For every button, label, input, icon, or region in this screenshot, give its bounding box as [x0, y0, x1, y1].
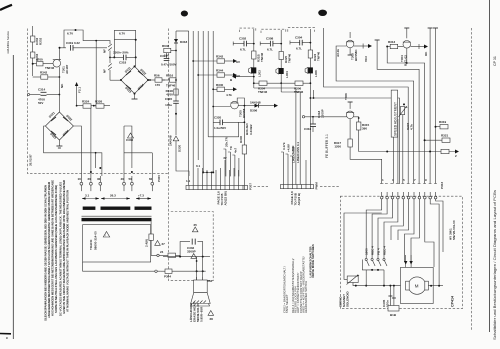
potentiometer R307 — [399, 103, 414, 130]
transistor T306 FE buffer — [344, 93, 354, 119]
svg-text:C318: C318 — [119, 61, 127, 65]
svg-text:D306: D306 — [250, 109, 258, 113]
wire bridge D311 left — [110, 79, 121, 81]
wire osc bottom rail — [163, 256, 210, 258]
svg-text:1N4148: 1N4148 — [250, 101, 261, 105]
svg-text:C316: C316 — [304, 127, 312, 131]
svg-text:T306: T306 — [344, 93, 348, 100]
resistor R302 — [31, 36, 43, 45]
wire T304 collector — [406, 48, 408, 64]
svg-text:TNF46: TNF46 — [260, 53, 264, 63]
warning triangle osc mid — [191, 254, 197, 259]
wire bridge D311 right chain — [148, 74, 165, 88]
svg-text:L303: L303 — [258, 70, 262, 77]
svg-text:30: 30 — [97, 177, 101, 181]
svg-text:6.7L: 6.7L — [267, 48, 273, 52]
svg-text:P303: P303 — [440, 182, 444, 189]
svg-text:R342: R342 — [40, 71, 48, 75]
legend LAUFWERKSCHALTER — [283, 244, 315, 313]
diode D330 triangle — [169, 135, 190, 176]
CP 31 label — [493, 56, 497, 66]
resistor R354 — [168, 253, 180, 257]
resistor R046 — [162, 44, 177, 58]
bridge rectifier D321 — [45, 111, 73, 140]
svg-text:0.95R~65R: 0.95R~65R — [200, 306, 204, 322]
svg-text:4n7: 4n7 — [234, 147, 238, 153]
svg-text:0.22: 0.22 — [74, 41, 80, 45]
section border dashed left — [27, 29, 168, 174]
svg-text:1N4148: 1N4148 — [169, 135, 173, 146]
resistor R326 — [95, 100, 104, 109]
svg-text:C330: C330 — [126, 138, 134, 142]
svg-text:1800: 1800 — [365, 248, 369, 255]
svg-text:F3.1: F3.1 — [78, 87, 82, 93]
svg-text:4.7k: 4.7k — [226, 93, 232, 97]
svg-text:4V: 4V — [223, 156, 227, 160]
svg-text:BC558: BC558 — [242, 108, 246, 118]
wire lower feed — [155, 269, 206, 279]
svg-text:L304: L304 — [285, 71, 289, 78]
svg-text:1.0u/50V: 1.0u/50V — [214, 126, 226, 130]
resistor R322 on rail3 — [308, 50, 320, 61]
svg-text:REC 4: REC 4 — [371, 246, 375, 255]
dashed link A-B — [254, 186, 269, 188]
svg-text:6.7L: 6.7L — [296, 47, 302, 51]
registration dot 2 — [181, 11, 188, 17]
svg-text:DRIVE MODE SWITCHES: DRIVE MODE SWITCHES — [311, 244, 315, 277]
wire base feed — [32, 63, 54, 65]
wire emitter down — [59, 67, 64, 112]
right dashed margin line — [471, 28, 473, 331]
wire bus lines — [176, 31, 213, 185]
resistor R304b — [31, 52, 40, 61]
capacitor C316 — [304, 124, 316, 132]
svg-text:CP 31: CP 31 — [493, 56, 497, 66]
wire T303 emitter — [354, 44, 372, 63]
switch contacts — [362, 258, 387, 286]
label C310 — [317, 109, 325, 118]
warning triangle 27 — [155, 241, 165, 247]
wire emitter rail — [359, 130, 459, 158]
wire C320 return loop — [208, 122, 238, 137]
wire rail1 sweep down — [254, 88, 296, 185]
svg-text:50: 50 — [129, 177, 133, 181]
wire supply sweep — [324, 28, 409, 184]
solenoid coil — [344, 213, 382, 285]
resistor R317 — [334, 119, 352, 149]
transistor T304 — [400, 28, 411, 66]
svg-text:170: 170 — [155, 83, 160, 87]
svg-text:NF: NF — [103, 49, 107, 53]
svg-text:0.47u/100V: 0.47u/100V — [161, 63, 177, 67]
svg-text:AD(22 B6): AD(22 B6) — [224, 191, 228, 205]
diode D306 line — [238, 101, 278, 113]
svg-text:20: 20 — [88, 177, 92, 181]
resistor R318 — [166, 89, 179, 97]
resistor R320 on rail2 — [279, 52, 292, 64]
wire T304 emitter — [411, 44, 428, 56]
svg-text:Schaltbilder und Bestückungsun: Schaltbilder und Bestückungsunterlagen /… — [493, 190, 497, 340]
connector TU4 — [388, 306, 399, 318]
svg-text:TRAFO: TRAFO — [89, 239, 93, 250]
capacitor C308 — [260, 37, 282, 52]
svg-text:SN726-001-00: SN726-001-00 — [452, 220, 456, 240]
svg-text:A3.1k: A3.1k — [336, 49, 340, 57]
svg-text:REC-4: REC-4 — [383, 246, 387, 255]
svg-text:R342: R342 — [216, 55, 224, 59]
svg-text:6.7V: 6.7V — [119, 32, 125, 36]
svg-text:C319: C319 — [66, 41, 74, 45]
svg-text:R313: R313 — [388, 40, 396, 44]
warning triangle 26 — [126, 133, 134, 142]
wire motor bus — [353, 283, 401, 287]
svg-text:D330: D330 — [178, 144, 182, 152]
svg-text:AD(23 B): AD(23 B) — [297, 193, 301, 206]
label switch names — [365, 246, 387, 255]
registration dot 3 — [318, 10, 327, 16]
svg-text:20k.TR: 20k.TR — [225, 136, 229, 147]
resistor R352 — [145, 221, 157, 255]
svg-text:TAPE SELECT: TAPE SELECT — [285, 294, 289, 313]
wire trafo to oscillator — [83, 262, 161, 271]
arrow B tap — [230, 75, 255, 82]
wire bridge left to xfmr — [44, 126, 102, 176]
svg-text:SOLENOID: SOLENOID — [346, 290, 350, 307]
resistor R342 tap — [192, 55, 240, 65]
svg-text:NF: NF — [103, 69, 107, 73]
capacitor C332 loop — [180, 239, 203, 257]
svg-text:P307: P307 — [249, 183, 253, 190]
wire mid drop — [95, 40, 97, 107]
svg-text:SPEED ADJUSTMENT: SPEED ADJUSTMENT — [393, 102, 397, 136]
wire rail2 sweep down — [281, 92, 300, 185]
svg-text:!: ! — [105, 234, 106, 238]
svg-text:M: M — [415, 283, 419, 288]
svg-text:D318: D318 — [180, 40, 188, 44]
svg-text:27: 27 — [162, 242, 166, 246]
wire P303 pin feet — [380, 178, 444, 189]
svg-text:C314: C314 — [38, 88, 46, 92]
label CP414 — [451, 296, 455, 307]
svg-text:1200: 1200 — [334, 145, 341, 149]
svg-text:B1B: B1B — [390, 313, 397, 317]
capacitor C319 — [66, 41, 107, 51]
svg-text:4700: 4700 — [36, 58, 43, 62]
svg-text:4.7k: 4.7k — [410, 124, 414, 130]
label TRAFO — [89, 231, 98, 250]
svg-text:3.17k: 3.17k — [282, 142, 286, 150]
dashed boxes filter — [239, 28, 314, 33]
wire corner mid — [375, 40, 420, 184]
comb A pin stubs — [186, 156, 239, 185]
ground at bridge D311 — [132, 94, 138, 99]
transistor T305 — [231, 101, 247, 118]
resistor R306b — [36, 58, 55, 71]
svg-text:HEADCARRIER SWITCH: HEADCARRIER SWITCH — [304, 281, 308, 313]
bridge rectifier D311 — [120, 65, 149, 94]
comb B short stubs — [281, 142, 295, 184]
wire T306 base feed — [302, 116, 346, 124]
capacitor C317 — [160, 53, 177, 67]
transistor T301 — [53, 60, 69, 75]
label page 3,6 B — [290, 191, 301, 206]
wire xfmr risers left — [81, 106, 95, 176]
svg-text:R56: R56 — [154, 74, 160, 78]
resistor R324 — [82, 100, 91, 109]
svg-text:R340: R340 — [216, 83, 224, 87]
capacitor C345 — [382, 286, 396, 307]
resistor R308 row — [33, 71, 61, 80]
section divider dashed center — [169, 29, 214, 281]
svg-text:PB 4: PB 4 — [377, 248, 381, 255]
svg-text:LINE/CASS 3.1: LINE/CASS 3.1 — [296, 142, 300, 163]
svg-text:0.1: 0.1 — [196, 164, 201, 168]
connector circles row — [380, 192, 437, 199]
wire mid rail arrow — [75, 82, 82, 106]
svg-text:50V: 50V — [38, 101, 43, 105]
svg-text:3.1: 3.1 — [85, 194, 90, 198]
transistor T303 — [346, 32, 358, 61]
capacitor C326 chain — [165, 97, 179, 135]
svg-text:AV: AV — [236, 60, 240, 64]
coil L303 — [249, 67, 262, 77]
wire rail3 stub — [306, 90, 314, 185]
svg-text:390: 390 — [362, 127, 367, 131]
resistor R344 tap — [197, 69, 240, 79]
capacitor C320 — [213, 116, 245, 131]
svg-text:1.79M: 1.79M — [291, 145, 295, 154]
page left border line — [12, 55, 14, 339]
svg-text:59600-314-00: 59600-314-00 — [94, 231, 98, 250]
svg-text:AV: AV — [236, 74, 240, 78]
winding secondary bars — [83, 207, 152, 210]
svg-text:C326: C326 — [165, 97, 173, 101]
resistor R316 — [162, 74, 177, 88]
svg-text:C302: C302 — [239, 37, 247, 41]
svg-text:2.4(8): 2.4(8) — [145, 239, 149, 247]
svg-text:+4.8V: +4.8V — [287, 144, 291, 152]
wire motor top pins — [404, 255, 413, 267]
svg-text:C304: C304 — [295, 36, 303, 40]
svg-text:R330: R330 — [239, 135, 243, 143]
svg-text:3.2/3B2: 3.2/3B2 — [249, 124, 253, 135]
transformer pins — [78, 167, 154, 191]
label erase head — [188, 301, 204, 322]
wire filter rails — [254, 29, 311, 185]
svg-text:TNF46: TNF46 — [258, 90, 268, 94]
node bus dots — [202, 171, 214, 173]
wire top loop right — [113, 30, 136, 66]
diode D318 — [174, 39, 188, 44]
wire T305 collector riser — [237, 98, 244, 145]
svg-text:C317: C317 — [160, 54, 168, 58]
dashed link B-servo — [320, 186, 340, 188]
svg-text:R319: R319 — [439, 120, 447, 124]
svg-text:PWM: PWM — [315, 182, 319, 190]
wire T304 base corner — [387, 47, 424, 184]
svg-text:3300P: 3300P — [187, 250, 196, 254]
right margin title — [493, 190, 497, 340]
winding primary bar — [82, 216, 152, 221]
resistor R330 — [239, 135, 247, 185]
svg-text:SOWIE IN NEUTRALSTELLUNG DES L: SOWIE IN NEUTRALSTELLUNG DES LAUFWERKS G… — [54, 185, 58, 313]
svg-text:C320: C320 — [214, 116, 222, 120]
wire xfmr risers right — [124, 126, 152, 176]
warning triangle head — [208, 311, 214, 322]
page right border line — [489, 0, 491, 332]
wire T305 base — [212, 106, 230, 108]
pen mark top-left — [0, 5, 12, 10]
wire collector to C319 rail — [59, 47, 67, 60]
NF input chevrons — [103, 44, 112, 80]
label servo solenoid — [339, 290, 350, 307]
wire right rails pair — [428, 28, 438, 184]
wire servo staircase — [366, 199, 443, 286]
svg-text:FE BUFFER 3.1: FE BUFFER 3.1 — [325, 134, 329, 158]
svg-text:TNF46: TNF46 — [317, 52, 321, 62]
svg-text:AC187: AC187 — [65, 64, 69, 74]
svg-text:3300+-20%: 3300+-20% — [113, 51, 129, 55]
svg-text:TNF46: TNF46 — [288, 54, 292, 64]
label P300 — [157, 175, 161, 182]
resistor R323 — [429, 149, 449, 153]
svg-text:BC558C: BC558C — [354, 49, 358, 61]
resistor R304 — [253, 81, 282, 94]
svg-text:26.3: 26.3 — [110, 194, 116, 198]
wire rail3 sweep — [310, 97, 400, 183]
svg-text:R344: R344 — [216, 69, 224, 73]
svg-text:L306: L306 — [314, 70, 318, 77]
resistor R340 tap — [212, 83, 237, 97]
resistor R319 — [435, 120, 449, 129]
svg-text:P304: P304 — [164, 275, 171, 279]
resistor R306 — [281, 81, 311, 94]
svg-text:GRUNDIG Service: GRUNDIG Service — [6, 31, 10, 54]
svg-text:R316: R316 — [166, 74, 174, 78]
label stubs column — [223, 136, 239, 176]
date note 35.03.97 — [29, 154, 33, 166]
wire left chain — [175, 31, 177, 101]
page number mark bottom-left — [0, 333, 11, 340]
label line cass — [292, 142, 301, 163]
svg-text:R302: R302 — [39, 37, 43, 45]
svg-text:40: 40 — [121, 177, 125, 181]
voltage arrows — [82, 194, 151, 200]
wire head risers — [196, 257, 213, 283]
wire T303 base sweep — [336, 46, 414, 184]
label page 3,6 A — [217, 191, 228, 206]
svg-text:R046: R046 — [162, 44, 170, 48]
wire D306 to comb — [245, 123, 253, 135]
svg-text:R326: R326 — [95, 100, 103, 104]
svg-text:10: 10 — [78, 177, 82, 181]
note german text — [44, 179, 70, 321]
ground at bridge D321 — [56, 140, 62, 148]
resistor R321 — [424, 134, 450, 143]
svg-text:TNF46: TNF46 — [166, 84, 176, 88]
svg-text:C308: C308 — [266, 37, 274, 41]
resistor R313 — [386, 40, 403, 49]
speed adjustment box — [391, 90, 397, 137]
wire rail to C318 — [107, 32, 125, 45]
svg-text:CP414: CP414 — [451, 296, 455, 307]
wire bridge right to xfmr — [73, 126, 81, 153]
svg-text:VC3: VC3 — [364, 56, 368, 62]
svg-text:+7.3: +7.3 — [138, 194, 144, 198]
resistor R315 — [354, 117, 370, 131]
label FE BUFFER — [325, 134, 329, 158]
svg-text:35.03.97: 35.03.97 — [29, 154, 33, 166]
svg-text:R321: R321 — [441, 134, 449, 138]
svg-text:60: 60 — [149, 177, 153, 181]
connector P307 comb A — [186, 183, 253, 190]
capacitor C304 — [290, 36, 311, 51]
svg-text:AT NOMINAL MAINS VOLTAGE WITHO: AT NOMINAL MAINS VOLTAGE WITHOUT TAPE IN… — [66, 190, 70, 312]
connector PWM comb B — [281, 182, 319, 190]
capacitor C318 — [109, 51, 136, 65]
svg-text:4700: 4700 — [166, 93, 173, 97]
wire left rail — [32, 26, 34, 76]
wire speed box taps — [393, 115, 402, 184]
svg-text:24: 24 — [160, 250, 164, 254]
svg-text:28: 28 — [210, 317, 214, 321]
svg-text:TNF46: TNF46 — [45, 66, 55, 70]
GRUNDIG Service vertical label — [6, 31, 10, 54]
label SN726 — [449, 220, 457, 240]
warning triangle trafo — [103, 232, 109, 238]
capacitor C314 — [27, 88, 60, 106]
wire mid rail — [76, 105, 110, 107]
svg-text:100u: 100u — [165, 103, 172, 107]
wire top rail 6.7V — [64, 29, 107, 48]
svg-text:6.7V: 6.7V — [67, 32, 73, 36]
coil L306 — [305, 67, 318, 77]
motor M — [406, 277, 443, 294]
wire T303 collector stub — [348, 48, 353, 55]
wire T306 out — [350, 147, 382, 184]
transformer body box — [83, 225, 151, 262]
svg-text:P300: P300 — [157, 175, 161, 182]
coil L304 — [276, 68, 289, 78]
node feed P — [157, 250, 168, 257]
svg-text:6.7L: 6.7L — [240, 48, 246, 52]
svg-text:1.1: 1.1 — [186, 179, 191, 183]
erase head — [191, 277, 211, 306]
motor box — [401, 267, 434, 303]
resistor R318a on rail1 — [252, 51, 264, 62]
servo dashed box — [340, 196, 462, 309]
capacitor C302 — [233, 37, 255, 52]
svg-text:25: 25 — [194, 223, 198, 227]
warning triangle osc top — [192, 223, 198, 232]
svg-text:R324: R324 — [82, 100, 90, 104]
